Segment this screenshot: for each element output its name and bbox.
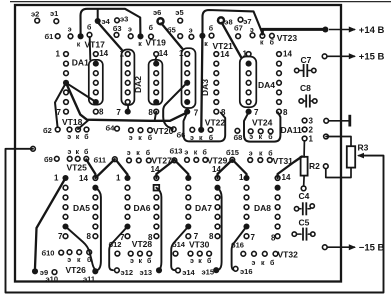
DA2 pin 1 pad (125, 52, 130, 57)
node э8 (218, 17, 224, 23)
DA4 pin 6 pad (246, 100, 251, 105)
svg-text:б: б (87, 256, 92, 264)
DA4 pin 1 pad (246, 52, 251, 57)
svg-text:14: 14 (159, 49, 168, 58)
DA6 pin 8 pad (154, 234, 159, 239)
svg-text:к: к (199, 135, 203, 142)
svg-text:э: э (127, 150, 131, 157)
DA1 pin 1 pad (64, 52, 69, 57)
wire: VT18 collector stub to bus (78, 121, 88, 130)
svg-text:б1: б1 (45, 32, 54, 41)
DA7 pin 8 pad (215, 234, 220, 239)
transistor VT26 (67, 250, 72, 255)
DA2 pin 9 pad (153, 99, 159, 105)
wire: VT17 collector up over top to VT19 collector (81, 9, 141, 35)
node э2 (35, 18, 40, 23)
svg-text:э15: э15 (202, 268, 214, 277)
svg-text:8: 8 (209, 232, 214, 241)
DA2 pin 11 pad (154, 80, 159, 85)
wire: VT17 base into DA1 right loop (89, 37, 92, 60)
DA3 pin 6 pad (184, 99, 190, 105)
DA8 pin 9 pad (275, 224, 280, 229)
DA5 pin 12 pad (93, 195, 98, 200)
svg-text:7: 7 (251, 233, 256, 242)
node pad below R2 (301, 186, 306, 191)
wire: DA11 pin1 to R2 (303, 141, 305, 157)
svg-text:б9: б9 (44, 155, 53, 164)
DA3 pin 13 pad (214, 61, 219, 66)
svg-text:VT32: VT32 (278, 249, 299, 259)
DA6 pin 14 pad (154, 176, 159, 181)
svg-text:б12: б12 (109, 240, 122, 249)
node э10 (52, 270, 57, 275)
wire: DA5 right row2 vertical to э11 (95, 188, 101, 271)
svg-text:2: 2 (309, 126, 314, 135)
DA6 pin 6 pad (124, 223, 130, 229)
wire: э4 stub to top run (97, 10, 99, 21)
node output pad (324, 118, 329, 123)
DA8 pin 1 pad (243, 175, 249, 181)
DA3 pin 10 pad (214, 90, 219, 95)
svg-text:VT23: VT23 (277, 33, 298, 43)
svg-text:7: 7 (194, 108, 199, 117)
svg-text:э16: э16 (240, 267, 252, 276)
transistor VT28 (128, 251, 133, 256)
svg-text:б: б (84, 133, 89, 141)
DA1 pin 9 pad (93, 99, 99, 105)
DA4 pin 8 pad (277, 109, 282, 114)
svg-text:б: б (87, 23, 92, 31)
svg-text:1: 1 (243, 50, 248, 59)
svg-text:8: 8 (271, 233, 276, 242)
svg-text:8: 8 (87, 232, 92, 241)
wire: э4 diagonal into DA2 left loop (98, 23, 121, 50)
DA8 pin 6 pad (243, 223, 249, 229)
svg-text:б: б (84, 148, 89, 156)
node э5 (178, 18, 183, 23)
DA8 pin 12 pad (275, 195, 280, 200)
transistor VT20 (129, 128, 134, 133)
wire: chain DA6.14 - б13 - DA7.1 (156, 160, 188, 178)
svg-text:DA4: DA4 (258, 80, 275, 90)
svg-text:к: к (260, 39, 264, 46)
node б2 (55, 127, 60, 132)
DA6 pin 1 pad (124, 175, 130, 181)
DA7 pin 3 pad (186, 195, 191, 200)
svg-text:VT24: VT24 (252, 118, 273, 128)
svg-text:C7: C7 (301, 55, 312, 65)
svg-text:э: э (252, 260, 256, 267)
DA5 pin 10 pad (93, 214, 98, 219)
svg-text:14: 14 (99, 49, 108, 58)
svg-text:б16: б16 (231, 241, 244, 250)
svg-text:б: б (268, 133, 273, 141)
wire: loop around DA1 right column rows 2-6 (89, 60, 103, 105)
DA8 pin 2 pad (244, 185, 249, 190)
svg-text:VT21: VT21 (213, 41, 234, 51)
DA8 pin 7 pad (244, 234, 249, 239)
svg-text:б: б (146, 149, 151, 157)
transistor VT29 (185, 158, 190, 163)
node +14 В pad (322, 26, 328, 32)
svg-text:7: 7 (116, 108, 121, 117)
svg-text:э4: э4 (102, 17, 111, 26)
DA7 pin 12 pad (215, 195, 220, 200)
svg-text:1: 1 (239, 173, 244, 182)
svg-text:б: б (149, 24, 154, 32)
svg-text:б: б (209, 134, 214, 142)
DA7 pin 6 pad (185, 223, 191, 229)
svg-text:б5: б5 (167, 26, 176, 35)
wire: chain DA7.14 - б15 - DA8.1 (218, 160, 247, 178)
wire: DA6 right square pad vertical to э13 (156, 188, 161, 270)
DA3 pin 8 pad (214, 109, 219, 114)
wire: loop around DA2 right column rows 2-6 (149, 60, 163, 105)
svg-text:к: к (77, 41, 81, 48)
svg-text:DA3: DA3 (200, 79, 210, 96)
svg-text:DA11: DA11 (281, 125, 303, 135)
node э7 (238, 17, 243, 22)
wire: DA1 pin4 down to б2 pad (55, 83, 66, 127)
wire: pentagon loop VT22 from DA3 pin7 to DA3 pin8 (184, 112, 226, 141)
DA4 pin 7 pad (246, 109, 252, 115)
DA6 pin 11 pad (154, 205, 159, 210)
wire R3 bottom to R2 pad (326, 168, 351, 178)
svg-text:э7: э7 (243, 17, 251, 26)
svg-text:э10: э10 (46, 275, 58, 284)
DA2 pin 2 pad (125, 61, 130, 66)
svg-text:э: э (130, 258, 134, 265)
svg-text:э2: э2 (31, 10, 39, 19)
wire: DA7 row6 to э14 (171, 227, 188, 271)
DA2 pin 3 pad (125, 71, 130, 76)
DA2 pin 12 pad (154, 71, 159, 76)
wire: DA7 right row2 vertical to э15 (218, 188, 222, 270)
DA11 pin 2 pad (302, 127, 307, 132)
transistor VT22 (190, 127, 195, 132)
node э16 (233, 266, 238, 271)
svg-text:DA8: DA8 (254, 203, 271, 213)
svg-text:к: к (76, 149, 80, 156)
node б6 (171, 127, 176, 132)
node э6 (158, 18, 164, 24)
DA4 pin 9 pad (277, 100, 282, 105)
DA7 pin 1 pad (185, 175, 191, 181)
node э4 (95, 18, 101, 24)
svg-text:э: э (128, 27, 132, 34)
DA4 pin 11 pad (277, 80, 282, 85)
DA7 pin 2 pad (186, 185, 191, 190)
node б9 (54, 156, 59, 161)
node -15 В pad (322, 245, 327, 250)
transistor VT21 (189, 34, 194, 39)
DA1 pin 2 pad (64, 61, 69, 66)
DA1 pin 7 pad (64, 109, 69, 114)
transistor VT30 (188, 251, 193, 256)
DA3 pin 14 pad (214, 52, 219, 57)
wire: VT21 collector long vertical to VT22 collector (201, 36, 202, 129)
DA4 pin 12 pad (277, 71, 282, 76)
DA8 pin 14 pad (275, 176, 280, 181)
svg-text:б: б (147, 257, 152, 265)
DA8 pin 5 pad (244, 214, 249, 219)
node б13 (172, 158, 177, 163)
svg-text:к: к (204, 41, 208, 48)
svg-text:DA1: DA1 (72, 58, 89, 68)
wire: loop around DA4 left column (240, 57, 256, 108)
node б14 (173, 251, 178, 256)
svg-text:VT17: VT17 (85, 39, 106, 49)
DA2 pin 13 pad (153, 61, 159, 67)
transistor VT31 (248, 158, 253, 163)
node э15 (213, 267, 219, 273)
svg-text:DA7: DA7 (195, 203, 212, 213)
svg-text:8: 8 (148, 108, 153, 117)
svg-text:э: э (189, 27, 193, 34)
svg-text:к: к (261, 260, 265, 267)
svg-text:DA5: DA5 (73, 203, 90, 213)
node +15 В pad (322, 54, 327, 59)
wire R2 bottom lead (303, 176, 305, 186)
scan figure top border (10, 1, 391, 3)
transistor VT18 (67, 127, 72, 132)
svg-text:б: б (207, 257, 212, 265)
wire: DA5 row6 diagonal to э11 (66, 227, 96, 270)
DA1 pin 5 pad (64, 90, 69, 95)
wire outer loop from left pad around bottom to R3 (6, 149, 384, 293)
wire: DA5 pin1 down to э9 (35, 178, 66, 268)
svg-text:э: э (184, 150, 188, 157)
transistor VT32 (241, 251, 246, 256)
wire: DA2 pin14 stub into right loop (155, 57, 156, 61)
node б10 (59, 250, 64, 255)
svg-text:VT25: VT25 (67, 163, 88, 173)
svg-text:б2: б2 (43, 126, 52, 135)
+14 В thick trace from VT23 collector (262, 29, 325, 34)
DA8 pin 10 pad (275, 214, 280, 219)
svg-text:к: к (138, 41, 142, 48)
DA7 pin 10 pad (215, 214, 220, 219)
DA5 pin 13 pad (92, 185, 98, 191)
node б1 (55, 34, 60, 39)
DA1 pin 11 pad (93, 80, 98, 85)
DA5 pin 7 pad (63, 234, 68, 239)
svg-text:DA2: DA2 (133, 76, 143, 93)
DA2 pin 4 pad (125, 80, 130, 85)
node б4 (115, 126, 120, 131)
svg-text:7: 7 (58, 232, 63, 241)
svg-text:к: к (259, 150, 263, 157)
DA7 pin 5 pad (186, 214, 191, 219)
svg-text:э: э (190, 135, 194, 142)
DA2 pin 7 pad (125, 109, 131, 115)
wire: DA6 row6 to э12 (109, 227, 127, 271)
svg-text:б: б (209, 25, 214, 33)
DA1 pin 13 pad (93, 61, 99, 67)
svg-text:б13: б13 (170, 147, 183, 156)
node э14 (176, 268, 181, 273)
wire: hexagon VT21 collector over э8 э7 to VT23 collector (203, 10, 263, 34)
DA8 pin 11 pad (275, 205, 280, 210)
node R3 top pad (324, 134, 329, 139)
DA11 pin 1 pad (302, 136, 307, 141)
DA6 pin 12 pad (154, 195, 159, 200)
DA5 pin 1 pad (62, 175, 68, 181)
wire R3 top lead (326, 137, 351, 147)
DA7 pin 4 pad (186, 205, 191, 210)
DA7 pin 11 pad (215, 205, 220, 210)
DA2 pin 8 pad (154, 109, 159, 114)
svg-text:к: к (76, 134, 80, 141)
svg-text:э3: э3 (120, 15, 128, 24)
DA3 pin 1 pad (185, 52, 190, 57)
svg-text:э: э (68, 149, 72, 156)
DA8 pin 4 pad (244, 205, 249, 210)
DA1 pin 4 pad (63, 80, 69, 86)
DA3 pin 11 pad (214, 80, 219, 85)
node б3 (114, 33, 119, 38)
svg-text:8: 8 (283, 108, 288, 117)
svg-text:б6: б6 (177, 131, 186, 140)
svg-text:14: 14 (212, 165, 221, 174)
DA1 pin 14 pad (93, 52, 98, 57)
svg-text:к: к (194, 150, 198, 157)
wire: DA3 pin4 diagonal to б6 pad (163, 83, 187, 129)
DA11 pin 3 pad (302, 118, 307, 123)
svg-text:14: 14 (283, 50, 292, 59)
svg-text:э5: э5 (175, 8, 183, 17)
DA7 pin 9 pad (215, 224, 220, 229)
svg-text:к: к (77, 257, 81, 264)
node э11 (92, 268, 98, 274)
svg-text:э1: э1 (50, 9, 58, 18)
svg-text:R3: R3 (358, 143, 369, 153)
DA5 pin 2 pad (63, 185, 68, 190)
svg-text:1: 1 (309, 135, 314, 144)
svg-text:14: 14 (151, 165, 160, 174)
DA5 pin 3 pad (63, 195, 68, 200)
DA5 pin 11 pad (93, 205, 98, 210)
DA5 pin 9 pad (93, 224, 98, 229)
node left wall pad (31, 146, 36, 151)
svg-text:э: э (190, 258, 194, 265)
svg-text:э12: э12 (121, 268, 133, 277)
DA2 pin 5 pad (125, 90, 130, 95)
wire: W chain VT25 base - DA5.14 - б11 - DA6.1 (86, 159, 115, 178)
svg-text:+14 В: +14 В (359, 25, 385, 36)
DA6 pin 7 pad (125, 234, 130, 239)
wire: loop around DA2 left column (121, 50, 134, 106)
node б5 (178, 34, 183, 39)
-15 В line (328, 246, 356, 248)
svg-text:VT31: VT31 (273, 156, 294, 166)
svg-text:э14: э14 (182, 268, 195, 277)
node б11 (112, 157, 117, 162)
wire: DA8 row6 to э16 (232, 227, 247, 270)
svg-text:э: э (68, 26, 72, 33)
wire: э8 diagonal into DA4 left loop (222, 23, 241, 57)
DA4 pin 2 pad (246, 61, 252, 67)
svg-text:14: 14 (282, 173, 291, 182)
svg-text:1: 1 (120, 50, 125, 59)
transistor VT24 (248, 129, 253, 134)
DA3 pin 9 pad (214, 100, 219, 105)
DA2 pin 10 pad (154, 90, 159, 95)
DA3 pin 7 pad (184, 109, 190, 115)
DA4 pin 13 pad (277, 61, 282, 66)
svg-text:э: э (129, 135, 133, 142)
DA1 pin 12 pad (93, 71, 98, 76)
wire: DA8.14 up to R2 (278, 157, 302, 179)
svg-text:к: к (138, 135, 142, 142)
svg-text:э13: э13 (140, 268, 152, 277)
DA7 pin 7 pad (186, 234, 191, 239)
svg-text:1: 1 (56, 50, 61, 59)
svg-text:8: 8 (221, 108, 226, 117)
svg-text:б15: б15 (226, 148, 239, 157)
svg-text:э: э (249, 150, 253, 157)
DA8 pin 3 pad (244, 195, 249, 200)
DA5 pin 14 pad (93, 176, 98, 181)
DA4 pin 14 pad (277, 52, 282, 57)
board outline (15, 5, 341, 282)
svg-text:−15 В: −15 В (359, 243, 385, 254)
wire: DA2 loop stub to pin7 (127, 105, 129, 110)
svg-text:1: 1 (116, 174, 121, 183)
node э1 (54, 19, 59, 24)
DA6 pin 9 pad (154, 224, 159, 229)
DA5 pin 6 pad (62, 223, 68, 229)
node R2 output pad (323, 164, 328, 169)
node б8 (235, 128, 240, 133)
node э13 (156, 267, 162, 273)
svg-text:б10: б10 (42, 249, 55, 258)
DA7 pin 13 pad (214, 185, 220, 191)
svg-text:б8: б8 (234, 133, 243, 142)
transistor VT25 (67, 156, 72, 161)
DA6 pin 13 pad (square) (154, 185, 160, 191)
DA4 pin 3 pad (246, 71, 251, 76)
svg-text:э8: э8 (224, 18, 232, 27)
transistor VT23 (250, 33, 255, 38)
svg-text:VT22: VT22 (205, 117, 226, 127)
svg-text:7: 7 (254, 108, 259, 117)
svg-text:э: э (67, 257, 71, 264)
svg-text:к: к (139, 258, 143, 265)
wire: pentagon loop VT24 from DA4 pin7 to DA4 pin8 (244, 112, 280, 141)
transistor VT17 (68, 34, 73, 39)
svg-text:VT30: VT30 (189, 239, 210, 249)
svg-text:C8: C8 (300, 83, 311, 93)
DA1 pin 3 pad (64, 71, 69, 76)
svg-text:3: 3 (309, 117, 314, 126)
DA6 pin 5 pad (125, 214, 130, 219)
DA6 pin 3 pad (125, 195, 130, 200)
DA5 pin 4 pad (63, 205, 68, 210)
svg-text:VT20: VT20 (153, 126, 174, 136)
node э3 (115, 18, 120, 23)
svg-text:VT19: VT19 (146, 38, 167, 48)
DA2 pin 6 pad (125, 100, 130, 105)
svg-text:э: э (250, 27, 254, 34)
svg-text:VT18: VT18 (62, 117, 83, 127)
svg-text:VT28: VT28 (132, 239, 153, 249)
wire: DA1 pin4 to DA1 right row6 diagonal (66, 83, 95, 102)
svg-text:1: 1 (179, 49, 184, 58)
svg-text:э6: э6 (153, 8, 161, 17)
DA8 pin 8 pad (275, 234, 280, 239)
node б12 (115, 251, 120, 256)
